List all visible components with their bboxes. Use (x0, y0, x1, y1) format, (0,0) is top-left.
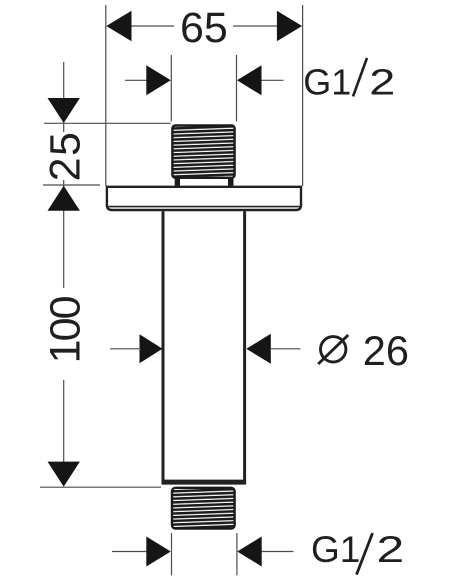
arrow G1/2 bottom right (237, 537, 262, 567)
svg-text:G1: G1 (303, 61, 351, 102)
arrow G1/2 top left (146, 65, 171, 95)
arrow G1/2 bottom left (146, 537, 171, 567)
extension line at flange top level (43, 184, 100, 186)
dimension tail G1/2 top right (261, 79, 284, 81)
thread neck right (228, 178, 234, 188)
svg-text:65: 65 (180, 4, 228, 52)
bottom thread (hatched) (172, 488, 235, 529)
flange (escutcheon) (107, 187, 301, 210)
top thread (hatched) (172, 126, 234, 178)
extension line at thread top level (44, 122, 171, 124)
pipe left wall (162, 211, 165, 482)
vertical dimension line 25/100 (63, 62, 65, 132)
arrow 65 right (277, 11, 302, 41)
extension line left of top thread (170, 55, 172, 122)
arrow d26 left (right-pointing) (140, 334, 163, 363)
svg-text:G1: G1 (311, 529, 360, 570)
arrow 65 left (106, 11, 131, 41)
svg-text:26: 26 (363, 327, 409, 374)
pipe bottom edge (162, 480, 247, 485)
flange inner bottom line (109, 206, 300, 208)
svg-text:25: 25 (41, 131, 89, 182)
extension line left of bottom thread (171, 533, 173, 575)
arrow d26 right (left-pointing) (246, 334, 270, 364)
extension line at pipe bottom level (40, 486, 161, 488)
svg-text:100: 100 (42, 295, 90, 363)
extension line left of 65 dim (105, 5, 107, 186)
thread neck left (175, 178, 180, 188)
dimension line 65 (130, 25, 174, 27)
pipe right wall (243, 211, 246, 482)
svg-text:2: 2 (377, 529, 405, 570)
arrow 100 bottom (down) (48, 462, 80, 487)
extension line right of bottom thread (236, 533, 238, 575)
label d26 (321, 337, 346, 362)
dimension tail d26 right (271, 348, 301, 350)
arrow 25 top (down) (48, 98, 80, 123)
svg-text:2: 2 (369, 62, 395, 103)
extension line right of top thread (236, 55, 238, 122)
dimension tail G1/2 top left (125, 79, 147, 81)
arrow 25/100 middle (up) (48, 186, 80, 211)
dimension tail G1/2 bottom right (262, 551, 294, 553)
dimension tail G1/2 bottom left (112, 551, 147, 553)
extension line right of 65 dim (302, 5, 304, 186)
arrow G1/2 top right (237, 65, 262, 95)
dimension tail d26 left (110, 348, 141, 350)
